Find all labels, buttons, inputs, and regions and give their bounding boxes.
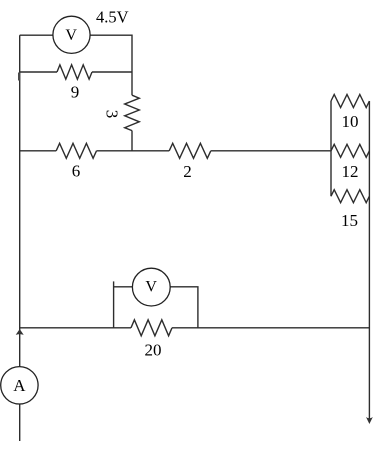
svg-text:9: 9: [71, 83, 80, 102]
svg-text:12: 12: [342, 162, 359, 181]
ammeter A circle: [1, 367, 38, 404]
resistor 3 (vertical): [131, 72, 133, 95]
current arrow down at right rail bottom: [366, 417, 373, 424]
wire bottom from left rail to resistor 20: [20, 327, 131, 329]
wire voltmeter loop top-left: [114, 286, 133, 288]
wire voltmeter loop top-right and right vertical: [170, 287, 198, 328]
current arrow up on left rail: [16, 329, 24, 335]
wire bank right rail continuing down: [368, 101, 370, 419]
resistor 20: [131, 320, 172, 336]
voltmeter V1 circle (top): [53, 16, 90, 53]
junction tick at resistor 9 left node: [18, 73, 20, 81]
wire voltmeter loop left vertical: [113, 281, 115, 327]
wire middle row left lead: [20, 150, 57, 152]
wire top-right from voltmeter to right branch corner: [90, 35, 132, 72]
svg-text:V: V: [145, 279, 157, 296]
svg-text:A: A: [13, 376, 26, 395]
svg-text:3: 3: [103, 110, 122, 119]
wire top-left from rail to voltmeter: [20, 34, 53, 36]
resistor 9: [20, 71, 57, 73]
wire left rail lower section below ammeter: [19, 404, 21, 441]
svg-text:15: 15: [341, 211, 358, 230]
wire bottom from resistor 20 to right rail: [172, 327, 369, 329]
resistor 2: [169, 143, 211, 158]
wire from resistor 2 to parallel bank: [211, 150, 331, 152]
resistor 15: [331, 190, 369, 203]
svg-text:2: 2: [183, 162, 192, 181]
wire left rail upper section: [19, 35, 21, 366]
svg-text:10: 10: [342, 112, 359, 131]
svg-text:4.5V: 4.5V: [96, 8, 129, 27]
resistor 12: [331, 144, 369, 157]
wire between resistor 6 and resistor 2: [97, 150, 170, 152]
resistor 6: [56, 143, 96, 158]
wire bank left rail: [330, 101, 332, 196]
svg-text:V: V: [65, 27, 77, 44]
voltmeter V2 circle (across resistor 20): [132, 268, 170, 306]
svg-text:20: 20: [145, 341, 162, 360]
resistor 10: [331, 95, 369, 108]
svg-text:6: 6: [72, 161, 81, 180]
